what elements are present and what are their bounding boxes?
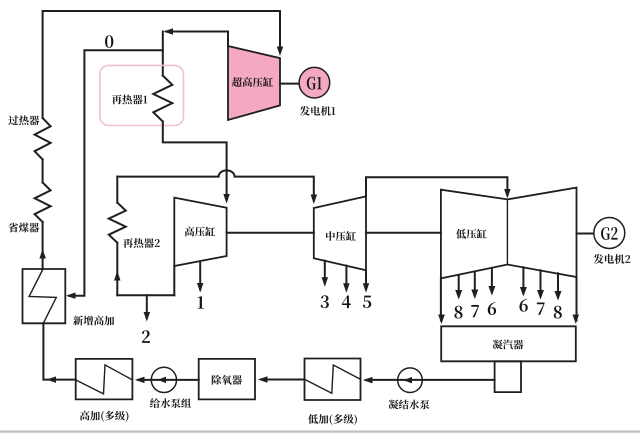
generator G1 circle — [299, 67, 330, 98]
LP heater coil symbol — [305, 365, 361, 393]
arrow into UHP inlet — [277, 47, 283, 57]
arrow into new HP heater (steam side) — [66, 292, 76, 299]
HP heater coil symbol — [76, 365, 133, 394]
label generator 2 — [594, 254, 631, 264]
label condensate pump — [389, 400, 430, 410]
reheater 2 coil — [109, 203, 126, 243]
wire: LP left exhaust to condenser — [440, 278, 442, 320]
label 3 — [321, 295, 329, 308]
HP heaters box (gao jia duo ji) — [76, 359, 133, 400]
label 5 — [363, 296, 371, 308]
label UHP cylinder — [232, 77, 273, 87]
reheater 1 enclosure — [100, 65, 184, 125]
LP center division line — [506, 199, 508, 264]
extraction 3 arrow — [322, 277, 329, 287]
generator G2 circle — [594, 218, 625, 249]
LP extraction arrow — [520, 287, 527, 297]
extraction 4 wire — [345, 266, 347, 290]
LP extraction wire at x=491.9 — [491, 269, 493, 292]
shaft: UHP to generator 1 — [280, 83, 299, 85]
label 4 — [342, 295, 351, 308]
label HP cylinder — [185, 227, 216, 237]
arrow into HP inlet — [223, 194, 230, 204]
IP turbine cylinder (zhong ya gang) — [314, 196, 366, 270]
label 8 left — [454, 306, 462, 319]
arrow into condenser left — [438, 315, 445, 325]
arrow into LP inlet — [504, 189, 511, 199]
arrow into IP inlet — [311, 195, 318, 205]
arrow toward reheater 1 — [164, 28, 174, 35]
LP extraction arrow — [555, 291, 562, 301]
wire: reheater 2 outlet up — [116, 177, 118, 203]
extraction 5 arrow — [363, 283, 369, 293]
wire: up into reheater 2 — [116, 243, 118, 296]
LP extraction wire at x=540.5 — [540, 270, 542, 296]
wire: hot reheat 2 to IP inlet (hops over HP inlet line) — [117, 170, 313, 200]
wire: deaerator outlet through feed pump to HP heaters — [138, 379, 199, 381]
label 8 right — [554, 306, 562, 319]
wire: main steam, superheater outlet to UHP turbine inlet — [43, 11, 280, 118]
new HP heater lightning symbol — [29, 269, 56, 323]
label reheater 1 — [112, 95, 147, 105]
LP extraction arrow — [537, 290, 544, 300]
condensate pump circle — [398, 368, 423, 393]
label G1 — [307, 77, 322, 90]
wire: IP exhaust to LP center inlet — [366, 177, 507, 196]
LP extraction arrow — [455, 290, 462, 300]
shaft: IP to LP — [366, 232, 441, 234]
wire: cold reheat 2 horizontal — [117, 294, 174, 296]
wire: feedwater from new HP heater up to economizer — [42, 222, 44, 269]
label G2 — [601, 227, 618, 240]
arrow up into reheater 2 — [114, 271, 121, 281]
label economizer — [8, 223, 39, 233]
shaft: HP to IP — [227, 232, 314, 234]
wire: down into reheater 1 — [162, 32, 164, 76]
new HP heater box (xin zeng gao jia) — [23, 269, 66, 323]
superheater (boiler heating surface) — [35, 118, 51, 160]
extraction 5 wire — [365, 270, 367, 289]
arrow into HP heater — [135, 377, 145, 384]
label 1 — [198, 296, 204, 308]
label superheater — [8, 115, 39, 125]
arrow up into economizer — [39, 249, 46, 259]
wire: LP right exhaust to condenser — [576, 277, 578, 321]
economizer — [35, 183, 51, 223]
label LP heaters — [308, 414, 357, 425]
UHP turbine cylinder (chao gao ya gang) — [228, 46, 280, 120]
label IP cylinder — [326, 231, 356, 241]
wire: LP heater outlet to deaerator — [261, 379, 305, 381]
wire: reheater 1 outlet to HP turbine inlet — [163, 122, 227, 201]
LP extraction arrow — [471, 290, 478, 300]
arrow into deaerator — [258, 376, 268, 383]
LP extraction wire at x=558.0 — [557, 273, 559, 297]
extraction 4 arrow — [343, 283, 350, 293]
wire: condensate from hotwell to LP heaters — [366, 379, 495, 381]
label feed pump group — [150, 398, 191, 408]
wire between superheater and economizer — [42, 160, 44, 183]
wire: extraction 0 to new HP heater — [69, 50, 163, 296]
extraction 3 wire — [324, 261, 326, 284]
label 7 left — [471, 305, 479, 317]
wire: HP heater outlet to new HP heater — [43, 323, 75, 379]
deaerator box (chu yang qi) — [199, 359, 255, 400]
wire: HP exhaust down — [173, 266, 175, 295]
label 0 — [105, 35, 113, 48]
shaft: LP to generator 2 — [577, 233, 594, 235]
label generator 1 — [300, 106, 335, 116]
label 6 left — [488, 302, 496, 315]
label 7 right — [537, 302, 545, 314]
arrow on feedwater corner — [47, 376, 57, 383]
LP extraction arrow — [488, 286, 495, 296]
label deaerator — [212, 375, 242, 385]
extraction 2 arrow — [144, 312, 151, 322]
label 6 right — [519, 299, 527, 312]
LP heaters box (di jia duo ji) — [305, 359, 361, 401]
label new HP heater — [73, 316, 114, 326]
label 2 — [142, 330, 150, 342]
extraction 2 wire — [146, 295, 148, 318]
feedwater pump arrow — [158, 377, 167, 384]
bottom gray rule — [0, 431, 640, 433]
label condenser — [493, 340, 524, 350]
label HP heaters — [80, 411, 129, 422]
condensate pump arrow — [404, 377, 413, 384]
LP extraction wire at x=523.4 — [522, 267, 524, 293]
condenser hotwell box — [495, 361, 521, 392]
condenser box (ning qi qi) — [441, 326, 576, 361]
label LP cylinder — [456, 229, 487, 239]
LP extraction wire at x=474.8 — [474, 273, 476, 296]
extraction 1 arrow — [197, 283, 204, 293]
arrow into condenser right — [573, 315, 580, 325]
LP turbine cylinder (di ya gang, double flow) — [441, 188, 577, 279]
arrow into LP heater train — [363, 377, 373, 384]
feedwater pump circle — [151, 367, 176, 392]
reheater 1 coil — [153, 76, 172, 122]
LP extraction wire at x=458.7 — [458, 276, 460, 296]
HP turbine cylinder (gao ya gang) — [174, 198, 226, 266]
label reheater 2 — [123, 238, 160, 248]
wire: UHP exhaust to reheater 1 — [166, 32, 228, 47]
extraction 1 wire — [199, 263, 201, 290]
